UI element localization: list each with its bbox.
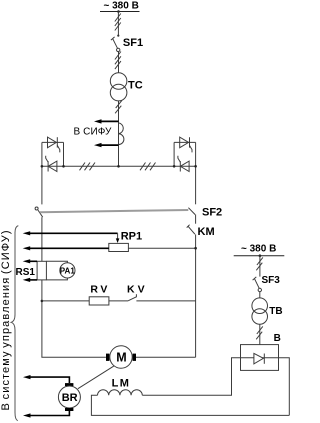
svg-text:LM: LM: [112, 378, 131, 390]
svg-text:PA1: PA1: [60, 266, 76, 275]
winding TC secondary sync coil: [119, 123, 124, 145]
wire SF3 to TB: [259, 292, 261, 298]
resistor RV: [89, 297, 109, 305]
resistor RP1: [109, 243, 129, 251]
wire RS1 to PA1 top: [46, 261, 67, 263]
node dot right loop left: [173, 165, 176, 168]
wire motor right lead: [136, 356, 196, 358]
wire RS1 to PA1 bottom: [46, 278, 67, 280]
arrow from RP1 wiper to control: [30, 232, 118, 234]
wire RP1 right end to KM conductor: [128, 247, 195, 249]
contact KV: [128, 294, 136, 301]
tachogenerator BR: [58, 386, 80, 408]
three-phase slashes AC left: [80, 163, 96, 171]
wire RV to KV: [109, 300, 128, 302]
motor M brush right: [133, 354, 136, 361]
thyristor VS2 bottom left: [46, 156, 57, 172]
wire right loop right vertical: [195, 142, 197, 204]
contactor KM contact: [187, 225, 195, 235]
wire right bus to SF3: [259, 256, 261, 277]
svg-text:SF1: SF1: [123, 37, 143, 49]
wire left conductor RS1 to motor: [41, 280, 43, 357]
node dot right loop right: [194, 165, 197, 168]
svg-text:M: M: [116, 351, 126, 365]
node junction dot center AC: [117, 165, 120, 168]
node dot left loop left: [41, 165, 44, 168]
breaker SF1: [111, 35, 120, 52]
wire left conductor SF2 to RS1: [41, 217, 43, 261]
rectifier B box: [241, 345, 279, 371]
wire left loop top branch: [42, 141, 64, 143]
three-phase slashes above TC: [115, 52, 121, 70]
brace control system group: [11, 226, 18, 421]
wire right bus: [234, 255, 285, 257]
arrow to SIFU lower: [101, 144, 119, 146]
wire left loop right vertical: [63, 142, 65, 166]
diode inside rectifier B: [254, 353, 264, 364]
node junction dot right bus: [259, 254, 262, 257]
svg-text:~ 380 В: ~ 380 В: [241, 243, 276, 254]
wire LM right lead to rectifier B: [142, 358, 240, 396]
breaker SF3: [253, 277, 262, 292]
arrow BR bottom to control: [30, 411, 70, 416]
motor M: [110, 346, 132, 368]
svg-text:BR: BR: [62, 392, 78, 404]
svg-text:KV: KV: [127, 284, 148, 296]
arrow from RS1 top to control: [30, 260, 38, 262]
transformer TB: [252, 298, 268, 324]
arrow BR top to control: [30, 377, 70, 383]
svg-text:~ 380 В: ~ 380 В: [104, 1, 139, 12]
three-phase slashes below bus: [115, 14, 121, 31]
node dot left loop right: [62, 165, 65, 168]
svg-text:RV: RV: [90, 284, 110, 296]
wire bus to SF1: [117, 12, 119, 36]
wire AC line: [42, 165, 196, 167]
tachogenerator BR brush top: [65, 383, 73, 386]
wire top bus: [100, 11, 140, 13]
node dot RV branch: [41, 300, 44, 303]
motor M brush left: [106, 354, 109, 361]
wire LM left lead to bottom: [91, 395, 289, 415]
svg-text:TC: TC: [128, 80, 143, 92]
svg-text:В СИФУ: В СИФУ: [74, 126, 113, 137]
svg-text:KM: KM: [198, 226, 215, 238]
switch SF2 left pole: [35, 207, 43, 217]
wire KM down right conductor: [195, 234, 197, 357]
svg-text:RS1: RS1: [16, 267, 36, 278]
wire rectifier B right lead to bottom: [279, 358, 290, 416]
shunt RS1: [37, 261, 46, 280]
wire TC to converter: [118, 101, 120, 166]
wire KV to right conductor: [136, 300, 195, 302]
shaft coupling M to BR: [78, 366, 114, 389]
wire left loop left vertical: [41, 142, 43, 204]
potentiometer RP1 wiper arrow: [117, 233, 119, 239]
thyristor VS3 top right: [180, 137, 192, 152]
node dot RP1 to KM conductor: [194, 247, 197, 250]
wire motor left lead: [42, 356, 106, 359]
wire right loop left vertical: [173, 142, 175, 166]
svg-text:В: В: [274, 333, 281, 344]
svg-text:В систему управления (СИФУ): В систему управления (СИФУ): [0, 229, 12, 410]
wire right loop top branch: [174, 141, 196, 143]
two-phase slashes above rectifier: [256, 326, 263, 339]
three-phase slashes AC right: [140, 163, 156, 171]
svg-text:RP1: RP1: [121, 230, 142, 242]
switch SF2 linkage bar: [40, 210, 189, 212]
two-phase slashes below TC: [115, 100, 122, 113]
wire TB to rectifier B: [259, 324, 261, 344]
two-phase slashes below right bus: [256, 257, 263, 270]
thyristor VS4 bottom right: [178, 156, 189, 172]
thyristor VS1 top left: [48, 137, 60, 152]
arrow to SIFU upper: [101, 120, 119, 122]
transformer TC: [110, 73, 127, 101]
svg-text:SF2: SF2: [202, 206, 222, 218]
svg-text:ТВ: ТВ: [269, 306, 282, 317]
svg-text:SF3: SF3: [262, 275, 281, 286]
wire SF1 to TC: [118, 52, 120, 73]
wire RV branch left: [42, 300, 89, 302]
arrow from RS1 bottom to control: [30, 279, 38, 281]
node junction dot top bus: [117, 10, 120, 13]
wire SF2 to KM right conductor: [195, 215, 197, 224]
ammeter PA1: [60, 263, 75, 278]
wire through rectifier: [241, 357, 279, 359]
arrow from RP1 left end to control: [30, 247, 109, 249]
switch SF2 right pole: [188, 208, 195, 215]
inductor LM field winding: [98, 390, 143, 396]
tachogenerator BR brush bottom: [65, 408, 73, 411]
